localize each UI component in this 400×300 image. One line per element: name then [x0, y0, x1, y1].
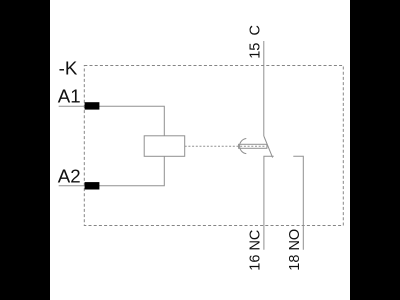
right matte bar: [350, 0, 400, 300]
NO contact 18: [293, 156, 303, 250]
dashed relay outline box: [84, 66, 343, 226]
actuator bar: [239, 144, 267, 148]
wire A2 to coil: [59, 156, 165, 186]
common terminal line 15: [263, 41, 265, 136]
wire A1 to coil: [59, 106, 165, 136]
relay coil K: [144, 136, 185, 157]
terminal block A2: [85, 182, 100, 189]
terminal block A1: [85, 102, 100, 109]
svg-text:15: 15: [248, 43, 264, 59]
svg-text:16 NC: 16 NC: [248, 230, 264, 271]
switch blade: [264, 136, 273, 158]
svg-text:18 NO: 18 NO: [287, 229, 303, 271]
svg-text:A2: A2: [58, 166, 81, 187]
NC contact 16: [264, 156, 274, 250]
mechanical link dashed line: [185, 145, 266, 147]
actuator arc: [240, 139, 247, 154]
left matte bar: [0, 0, 50, 300]
svg-text:-K: -K: [59, 57, 78, 78]
svg-text:C: C: [248, 25, 264, 35]
svg-text:A1: A1: [58, 85, 81, 106]
